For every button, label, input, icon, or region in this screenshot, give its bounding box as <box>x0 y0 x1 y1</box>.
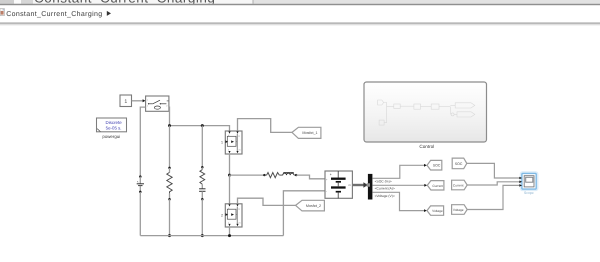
wire RL to battery + <box>296 175 325 179</box>
svg-text:Voltage: Voltage <box>432 209 443 213</box>
svg-text:Mosfet_1: Mosfet_1 <box>302 131 317 135</box>
RC branch R2+C2 (third) <box>199 126 205 238</box>
svg-text:<Current (A)>: <Current (A)> <box>375 186 395 190</box>
svg-text:<Voltage (V)>: <Voltage (V)> <box>375 194 395 198</box>
bus selector bar <box>368 174 373 200</box>
series RL branch R3 L1 <box>263 173 297 178</box>
svg-text:Constant_Current_Charging: Constant_Current_Charging <box>6 10 102 18</box>
svg-text:1: 1 <box>221 140 223 144</box>
breadcrumb arrow <box>107 11 111 16</box>
mosfet Q1 <box>221 131 242 154</box>
svg-text:<SOC (%)>: <SOC (%)> <box>375 180 392 184</box>
svg-text:SOC: SOC <box>455 162 463 166</box>
svg-text:5e-05 s.: 5e-05 s. <box>106 125 122 130</box>
node junction rail-mid <box>201 124 204 127</box>
tag Mosfet_1 <box>292 127 321 138</box>
svg-text:powergui: powergui <box>102 134 120 139</box>
node A junction <box>228 174 231 177</box>
svg-text:1: 1 <box>124 99 127 105</box>
wire return to battery minus <box>283 191 324 236</box>
svg-text:Current: Current <box>453 184 464 188</box>
goto tag SOC <box>427 160 442 170</box>
capacitor branch C1 (left) <box>137 175 144 235</box>
wire mosfet1 source to node A <box>229 154 231 175</box>
wire from-Voltage to scope in3 <box>467 185 519 209</box>
goto tag Current <box>427 181 444 190</box>
resistor branch R1 (middle) <box>167 126 172 238</box>
wire gate1 from tag Mosfet_1 <box>238 119 293 133</box>
wire from-SOC to scope in1 <box>467 163 519 178</box>
scope block (selected) <box>519 172 537 195</box>
wire bus out 1 (SOC) <box>372 164 427 184</box>
wire gate2 from tag Mosfet_2 <box>238 198 296 205</box>
battery B1 <box>325 171 352 198</box>
svg-text:Mosfet_2: Mosfet_2 <box>306 204 321 208</box>
powergui block <box>97 118 127 139</box>
tab bar strip (cropped) <box>0 0 600 5</box>
from tag Current <box>452 180 468 190</box>
wire battery m to bus selector (thick) <box>353 182 368 187</box>
wire bus out 2 (Current) <box>372 184 427 191</box>
wire from-Current to scope in2 <box>467 182 519 185</box>
rail wire y=125.6 to mosfet1 drain <box>170 126 230 131</box>
wire breaker left terminal down (branch 1 feed) <box>140 107 145 176</box>
breadcrumb bar <box>0 6 600 25</box>
wire breaker right terminal down to rail <box>168 107 171 126</box>
breaker block CB <box>146 96 169 111</box>
control subsystem block <box>364 82 487 149</box>
tag Mosfet_2 <box>296 200 325 211</box>
svg-text:m: m <box>239 149 241 152</box>
svg-text:Current: Current <box>432 184 443 188</box>
mosfet Q2 <box>221 204 242 227</box>
svg-text:m: m <box>239 222 241 225</box>
svg-text:2: 2 <box>221 213 223 217</box>
svg-text:Voltage: Voltage <box>453 208 464 212</box>
svg-text:+: + <box>330 173 332 177</box>
wire constant to breaker <box>132 99 146 102</box>
svg-text:Scope: Scope <box>524 191 534 195</box>
wire bus out 3 (Voltage) <box>372 192 427 212</box>
junction mosfet2-bus <box>228 234 231 237</box>
svg-text:Control: Control <box>419 144 434 149</box>
wire node A to mosfet2 drain <box>229 175 231 204</box>
svg-text:-: - <box>326 189 327 193</box>
goto tag Voltage <box>427 206 444 215</box>
model icon <box>0 9 4 16</box>
svg-text:SOC: SOC <box>433 164 441 168</box>
from tag Voltage <box>452 205 468 215</box>
wire mosfet2 source to bus <box>229 227 231 236</box>
svg-text:c: c <box>147 99 148 102</box>
constant block "1" <box>120 95 132 107</box>
node junction rail-left <box>168 124 171 127</box>
bus selector input port highlight <box>367 183 370 186</box>
wire node A to RL branch <box>230 174 265 176</box>
bottom bus wire <box>140 235 283 237</box>
from tag SOC <box>452 158 467 169</box>
